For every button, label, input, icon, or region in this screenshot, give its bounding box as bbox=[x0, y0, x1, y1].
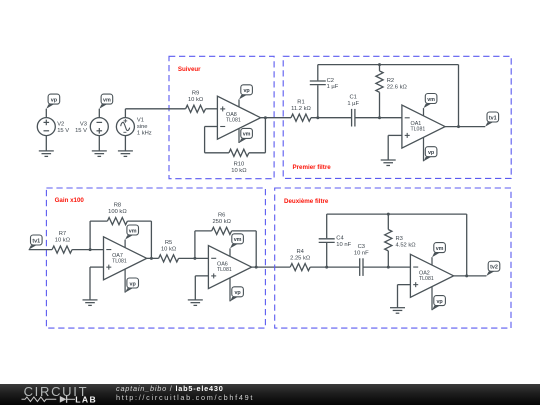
ground below V1 bbox=[118, 151, 133, 157]
net flag vm at OA8 bbox=[239, 128, 252, 143]
node B junction bbox=[325, 266, 328, 269]
svg-text:TL081: TL081 bbox=[112, 258, 127, 264]
wire OA8 minus input bbox=[205, 127, 218, 153]
svg-text:tv1: tv1 bbox=[489, 115, 497, 121]
svg-text:1 µF: 1 µF bbox=[347, 101, 359, 107]
svg-text:vp: vp bbox=[130, 281, 137, 287]
svg-text:1 kHz: 1 kHz bbox=[137, 131, 152, 137]
svg-text:R6: R6 bbox=[218, 212, 225, 218]
sine source V1 1kHz bbox=[116, 118, 151, 137]
net flag tv1 input bbox=[29, 235, 42, 250]
junction R3 bottom bbox=[387, 266, 390, 269]
svg-text:10 kΩ: 10 kΩ bbox=[161, 246, 177, 252]
wire R1 to node A bbox=[311, 117, 352, 119]
svg-text:LAB: LAB bbox=[75, 394, 97, 404]
junction OA8 output bbox=[264, 116, 267, 119]
net flag tv2 output bbox=[486, 261, 499, 276]
svg-text:vp: vp bbox=[234, 290, 241, 296]
net flag tv1 output bbox=[485, 112, 498, 127]
wire R8 to OA7 output bbox=[127, 221, 151, 258]
svg-text:vm: vm bbox=[243, 132, 251, 138]
node A junction bbox=[316, 116, 319, 119]
op-amp OA8 TL081 bbox=[217, 96, 260, 139]
svg-text:R7: R7 bbox=[59, 231, 66, 237]
svg-text:22.6 kΩ: 22.6 kΩ bbox=[387, 84, 408, 90]
dashed box Suiveur bbox=[169, 56, 274, 178]
svg-text:sine: sine bbox=[137, 124, 148, 130]
svg-text:TL081: TL081 bbox=[419, 276, 434, 282]
wire R6 to OA6 output bbox=[232, 231, 257, 267]
wire feedback up bbox=[458, 65, 460, 127]
capacitor C4 bbox=[319, 214, 352, 267]
wire V3 top stub bbox=[98, 109, 100, 118]
dashed box Premier filtre bbox=[283, 56, 511, 178]
svg-text:2.25 kΩ: 2.25 kΩ bbox=[290, 255, 311, 261]
resistor R10 feedback bbox=[229, 149, 249, 174]
dashed box Deuxieme filtre bbox=[275, 188, 511, 328]
svg-text:R4: R4 bbox=[296, 249, 304, 255]
op-amp OA2 TL081 bbox=[410, 254, 453, 297]
svg-text:C1: C1 bbox=[349, 94, 356, 100]
svg-text:4.52 kΩ: 4.52 kΩ bbox=[396, 242, 417, 248]
ground at OA7 bbox=[83, 300, 98, 306]
svg-text:R3: R3 bbox=[396, 236, 403, 242]
wire OA6 plus input bbox=[195, 276, 208, 300]
svg-text:Gain x100: Gain x100 bbox=[55, 197, 85, 204]
svg-text:250 kΩ: 250 kΩ bbox=[212, 219, 231, 225]
wire V1 top stub bbox=[124, 109, 126, 118]
svg-text:10 nF: 10 nF bbox=[336, 242, 351, 248]
junction OA2 output bbox=[465, 274, 468, 277]
svg-text:captain_bibo / lab5-ele430: captain_bibo / lab5-ele430 bbox=[116, 384, 224, 393]
ground at OA2 bbox=[390, 308, 405, 314]
net flag vp at OA2 bbox=[432, 287, 445, 311]
net flag vp at OA6 bbox=[230, 278, 243, 302]
label Gain x100 bbox=[55, 197, 85, 204]
wire V2 bottom stub bbox=[45, 136, 47, 151]
wire tv1 to R7 bbox=[29, 249, 52, 251]
wire feedback up to R6 bbox=[195, 231, 212, 259]
ground at OA6 bbox=[188, 300, 203, 306]
wire OA7 output bbox=[147, 257, 159, 259]
op-amp OA6 TL081 bbox=[208, 246, 251, 289]
net flag vp at V2 bbox=[46, 94, 59, 109]
svg-text:C4: C4 bbox=[336, 235, 344, 241]
wire to R10 bbox=[205, 152, 229, 154]
net flag vm at V3 bbox=[99, 94, 112, 109]
ground at OA1 bbox=[381, 160, 396, 166]
junction R2 bottom bbox=[378, 116, 381, 119]
svg-text:R10: R10 bbox=[234, 161, 245, 167]
svg-text:vp: vp bbox=[428, 150, 435, 156]
svg-text:vp: vp bbox=[243, 88, 250, 94]
svg-text:vm: vm bbox=[234, 237, 242, 243]
ground below V3 bbox=[92, 151, 107, 157]
wire OA2 output bbox=[454, 275, 487, 277]
junction R2 top bbox=[378, 63, 381, 66]
wire OA1 output bbox=[445, 126, 485, 128]
net flag vm at OA2 bbox=[432, 243, 445, 266]
label Premier filtre bbox=[293, 164, 332, 171]
junction node after R5 bbox=[193, 257, 196, 260]
svg-text:10 kΩ: 10 kΩ bbox=[55, 238, 71, 244]
net flag vm at OA1 bbox=[424, 94, 437, 116]
svg-text:R8: R8 bbox=[114, 203, 121, 209]
svg-text:10 nF: 10 nF bbox=[354, 250, 369, 256]
svg-text:vm: vm bbox=[129, 228, 137, 234]
op-amp OA1 TL081 bbox=[402, 105, 445, 148]
label Deuxieme filtre bbox=[284, 198, 329, 205]
svg-text:11.2 kΩ: 11.2 kΩ bbox=[291, 106, 311, 112]
net flag vp at OA8 bbox=[239, 85, 252, 107]
wire feedback up box4 bbox=[466, 214, 468, 276]
wire V2 top stub bbox=[45, 109, 47, 118]
net flag vp at OA7 bbox=[125, 269, 138, 293]
svg-text:15 V: 15 V bbox=[57, 128, 69, 134]
svg-text:R9: R9 bbox=[192, 90, 199, 96]
wire R7 to OA7 minus input bbox=[72, 249, 103, 251]
wire V1 to R9 bbox=[125, 108, 185, 110]
svg-text:V2: V2 bbox=[57, 121, 64, 127]
svg-text:Deuxième filtre: Deuxième filtre bbox=[284, 198, 329, 205]
svg-text:10 kΩ: 10 kΩ bbox=[231, 168, 247, 174]
junction OA7 output bbox=[150, 257, 153, 260]
wire feedback up to R8 bbox=[90, 221, 107, 250]
net flag vm at OA6 bbox=[230, 234, 243, 256]
capacitor C1 bbox=[347, 94, 359, 126]
svg-text:1 µF: 1 µF bbox=[327, 84, 339, 90]
resistor R3 bbox=[385, 214, 417, 267]
svg-text:vm: vm bbox=[103, 97, 111, 103]
svg-text:Premier filtre: Premier filtre bbox=[293, 164, 332, 171]
svg-text:tv2: tv2 bbox=[490, 265, 498, 271]
wire R4 to node B bbox=[310, 266, 360, 268]
resistor R7 bbox=[52, 231, 72, 253]
wire R10 to output bbox=[249, 118, 266, 153]
svg-text:TL081: TL081 bbox=[411, 127, 426, 133]
op-amp OA7 TL081 bbox=[104, 237, 147, 280]
footer bar bbox=[0, 384, 540, 405]
junction OA6 output bbox=[255, 266, 258, 269]
wire OA7 plus input bbox=[90, 267, 104, 300]
resistor R4 bbox=[290, 249, 311, 271]
svg-text:vm: vm bbox=[427, 97, 435, 103]
label Suiveur bbox=[178, 66, 201, 73]
wire top feedback box2 bbox=[318, 64, 459, 66]
svg-text:vm: vm bbox=[436, 246, 444, 252]
capacitor C3 bbox=[354, 244, 369, 276]
wire OA2 plus input bbox=[398, 285, 411, 308]
svg-text:R5: R5 bbox=[165, 240, 172, 246]
junction R3 top bbox=[387, 213, 390, 216]
svg-text:V3: V3 bbox=[80, 121, 87, 127]
wire OA8 output bbox=[261, 117, 291, 119]
svg-text:C2: C2 bbox=[327, 78, 334, 84]
net flag vp at OA1 bbox=[424, 137, 437, 161]
wire top feedback box4 bbox=[327, 213, 467, 215]
wire C3 to OA2 minus input bbox=[363, 266, 410, 268]
svg-text:TL081: TL081 bbox=[217, 267, 232, 273]
resistor R2 bbox=[376, 65, 408, 118]
svg-text:R1: R1 bbox=[297, 99, 304, 105]
wire V3 bottom stub bbox=[98, 136, 100, 151]
junction OA1 output bbox=[457, 125, 460, 128]
svg-text:100 kΩ: 100 kΩ bbox=[108, 209, 127, 215]
wire OA6 output bbox=[252, 266, 291, 268]
capacitor C2 bbox=[310, 65, 339, 118]
voltage source V3 15V bbox=[75, 118, 108, 136]
wire R9 to OA8 plus input bbox=[206, 108, 218, 110]
svg-text:C3: C3 bbox=[358, 244, 365, 250]
resistor R9 bbox=[186, 90, 206, 112]
net flag vm at OA7 bbox=[125, 225, 138, 248]
resistor R6 feedback bbox=[212, 212, 232, 234]
resistor R5 bbox=[159, 240, 179, 262]
resistor R8 feedback bbox=[107, 203, 127, 225]
wire V1 bottom stub bbox=[124, 136, 126, 151]
junction node after R7 bbox=[89, 248, 92, 251]
svg-text:V1: V1 bbox=[137, 118, 144, 124]
svg-text:TL081: TL081 bbox=[226, 118, 241, 124]
svg-text:http://circuitlab.com/cbhf49t: http://circuitlab.com/cbhf49t bbox=[116, 393, 254, 402]
svg-text:15 V: 15 V bbox=[75, 128, 87, 134]
wire OA1 plus input bbox=[388, 135, 402, 160]
dashed box Gain x100 bbox=[46, 188, 265, 328]
ground below V2 bbox=[39, 151, 54, 157]
svg-text:R2: R2 bbox=[387, 78, 394, 84]
resistor R1 bbox=[291, 99, 312, 121]
svg-text:vp: vp bbox=[51, 97, 58, 103]
logo resistor + diode symbol bbox=[22, 397, 57, 402]
wire C1 to OA1 minus input bbox=[355, 117, 402, 119]
svg-text:10 kΩ: 10 kΩ bbox=[188, 97, 204, 103]
voltage source V2 15V bbox=[37, 118, 69, 136]
svg-text:vp: vp bbox=[436, 299, 443, 305]
svg-text:tv1: tv1 bbox=[32, 238, 40, 244]
svg-text:Suiveur: Suiveur bbox=[178, 66, 201, 73]
wire R5 to OA6 minus input bbox=[179, 257, 209, 259]
